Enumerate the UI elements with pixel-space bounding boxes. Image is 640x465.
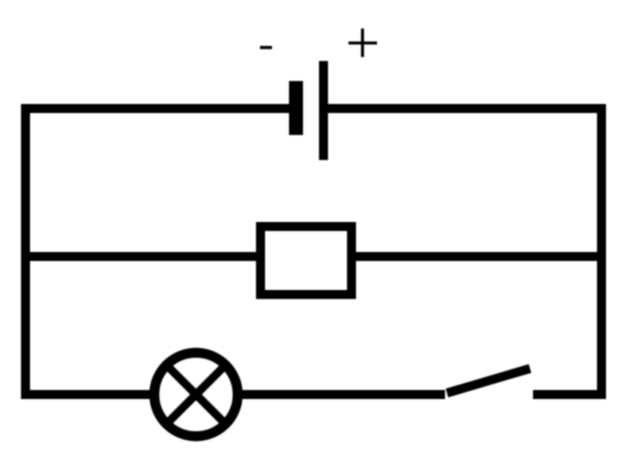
wire: bottom horizontal right segment [533, 390, 605, 399]
wire: left vertical [21, 104, 30, 399]
label: minus sign [260, 46, 272, 49]
lamp L1 [154, 353, 237, 436]
battery B1 negative plate [289, 81, 303, 135]
wire: top horizontal right segment [327, 104, 605, 113]
label: plus sign [349, 29, 378, 58]
switch S1 arm [447, 369, 530, 394]
wire: middle horizontal [21, 252, 605, 261]
wire: bottom horizontal left segment (through lamp) [21, 390, 445, 399]
wire: right vertical [597, 104, 606, 399]
wire: top horizontal left segment [21, 104, 289, 113]
battery B1 positive plate [319, 61, 328, 160]
resistor R1 [261, 227, 352, 295]
